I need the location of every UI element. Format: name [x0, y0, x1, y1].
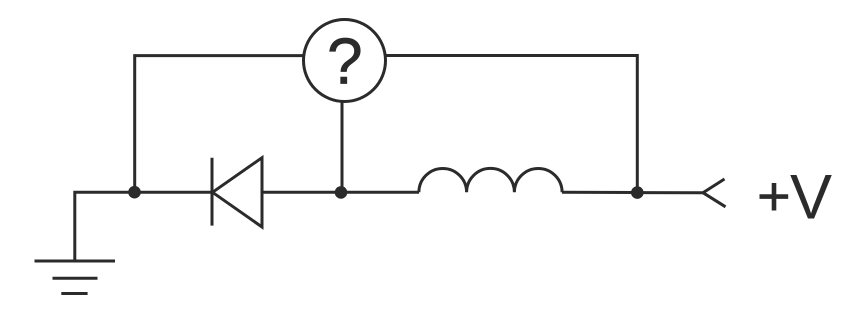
wire: right node to connector: [637, 191, 703, 194]
connector chevron +V input: [703, 179, 726, 207]
node C (right junction): [631, 186, 644, 199]
meter M1 (unknown component) circle: [304, 20, 386, 102]
svg-text:V: V: [790, 163, 832, 233]
diode D1 triangle: [213, 158, 263, 227]
ground: [35, 261, 116, 294]
wire: middle node to inductor: [341, 191, 419, 194]
wire: left node to diode: [135, 191, 213, 194]
svg-text:?: ?: [327, 24, 363, 98]
wire: left vertical rail up and top rail to meter: [135, 56, 304, 193]
node A (left junction): [128, 186, 141, 199]
net label +V plus sign: [760, 183, 789, 211]
wire: inductor to right node: [562, 191, 637, 194]
diode D1 cathode bar: [211, 158, 214, 226]
wire: meter bottom to middle node: [341, 102, 344, 193]
wire: left node to ground branch: [75, 192, 135, 261]
wire: top rail meter to right vertical rail down: [386, 56, 638, 193]
inductor L1: [419, 168, 562, 192]
wire: diode to middle node: [262, 191, 341, 194]
node B (middle junction): [335, 186, 348, 199]
